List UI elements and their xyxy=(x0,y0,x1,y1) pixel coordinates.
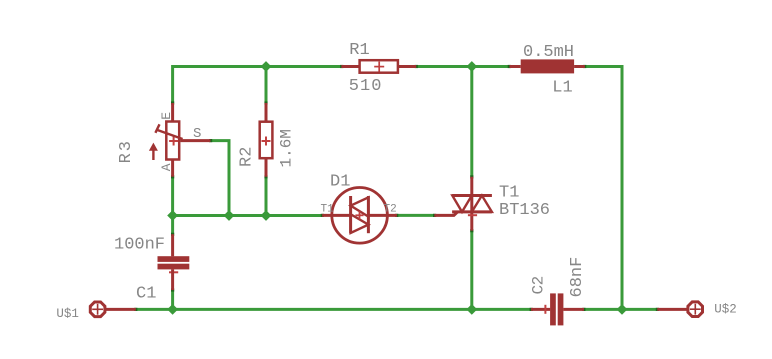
svg-text:R3: R3 xyxy=(117,139,136,163)
capacitor C2 xyxy=(531,293,584,325)
svg-text:U$1: U$1 xyxy=(56,307,79,321)
label D1 name xyxy=(330,172,350,191)
wire R2 bottom lead xyxy=(265,177,268,216)
svg-text:510: 510 xyxy=(349,77,383,96)
label D1 pin T2 xyxy=(384,204,397,216)
wire net N3 right side (L1 right, corner, down to bottom rail) xyxy=(585,67,622,310)
svg-text:T1: T1 xyxy=(499,183,519,202)
potentiometer R3 xyxy=(149,103,211,177)
label U$2 name xyxy=(714,303,737,317)
label R1 value 510 xyxy=(349,77,383,96)
junction node bottom right xyxy=(617,304,628,315)
wire triac bottom lead xyxy=(470,231,473,310)
wire mid rail (to diac T1) xyxy=(173,214,323,217)
svg-text:E: E xyxy=(159,112,174,120)
wire net N2 top rail (R1 right to triac top to L1 left) xyxy=(416,65,509,68)
wire diac T2 to triac gate xyxy=(397,214,435,217)
label R3 pin S xyxy=(193,126,201,142)
svg-text:L1: L1 xyxy=(552,79,572,98)
port U$2 xyxy=(657,302,702,317)
label R1 name xyxy=(349,41,369,60)
port U$1 xyxy=(90,302,136,317)
svg-text:D1: D1 xyxy=(330,172,350,191)
label R2 value 1.6M xyxy=(277,129,295,167)
triac T1 xyxy=(434,177,492,231)
svg-text:S: S xyxy=(193,126,201,142)
svg-text:T2: T2 xyxy=(384,204,397,216)
label U$1 name xyxy=(56,307,79,321)
wire R3 wiper S to mid rail xyxy=(210,141,229,216)
wire junction to U$2 xyxy=(622,308,657,311)
svg-text:1.6M: 1.6M xyxy=(277,129,295,167)
svg-text:C2: C2 xyxy=(530,276,548,294)
junction node bottom triac xyxy=(466,304,477,315)
svg-text:0.5mH: 0.5mH xyxy=(523,43,574,62)
junction node mid left xyxy=(167,210,178,221)
diac D1 xyxy=(322,188,397,244)
svg-text:C1: C1 xyxy=(136,285,156,304)
junction node mid wiper xyxy=(224,210,235,221)
inductor L1 xyxy=(510,59,585,73)
svg-text:U$2: U$2 xyxy=(714,303,737,317)
label R3 pin E xyxy=(159,112,174,120)
label R2 name xyxy=(238,147,257,167)
resistor R2 xyxy=(260,103,273,177)
label L1 value 0.5mH xyxy=(523,43,574,62)
wire R3 bottom lead xyxy=(171,177,174,216)
svg-text:A: A xyxy=(159,163,174,171)
capacitor C1 xyxy=(158,234,190,290)
junction node mid R2 xyxy=(261,210,272,221)
junction node bottom left xyxy=(167,304,178,315)
wire U$1 to bottom rail xyxy=(136,308,173,311)
svg-text:100nF: 100nF xyxy=(114,236,165,255)
label R3 name xyxy=(117,139,136,163)
junction node top triac xyxy=(466,61,477,72)
wire triac top lead xyxy=(470,67,473,177)
wire C2 right to junction xyxy=(584,308,622,311)
pin connection dots xyxy=(134,65,659,311)
label C1 value 100nF xyxy=(114,236,165,255)
label D1 pin T1 xyxy=(321,204,335,216)
label C2 name xyxy=(530,276,548,294)
wire C1 top lead xyxy=(171,216,174,235)
resistor R1 xyxy=(341,60,416,72)
svg-text:68nF: 68nF xyxy=(568,257,587,298)
svg-text:BT136: BT136 xyxy=(499,201,550,220)
junction node top R2 xyxy=(261,61,272,72)
wire net N1 top-left L (R3 top to top rail to R1 left) xyxy=(173,67,342,104)
wire C1 bottom lead xyxy=(171,290,174,309)
label T1 name xyxy=(499,183,519,202)
label T1 value BT136 xyxy=(499,201,550,220)
wire bottom rail (to C2 left) xyxy=(173,308,531,311)
svg-text:T1: T1 xyxy=(321,204,335,216)
svg-text:R2: R2 xyxy=(238,147,257,167)
label R3 pin A xyxy=(159,163,174,171)
wire R2 top lead xyxy=(265,67,268,104)
label L1 name xyxy=(552,79,572,98)
label C1 name xyxy=(136,285,156,304)
svg-text:R1: R1 xyxy=(349,41,369,60)
label C2 value 68nF xyxy=(568,257,587,298)
